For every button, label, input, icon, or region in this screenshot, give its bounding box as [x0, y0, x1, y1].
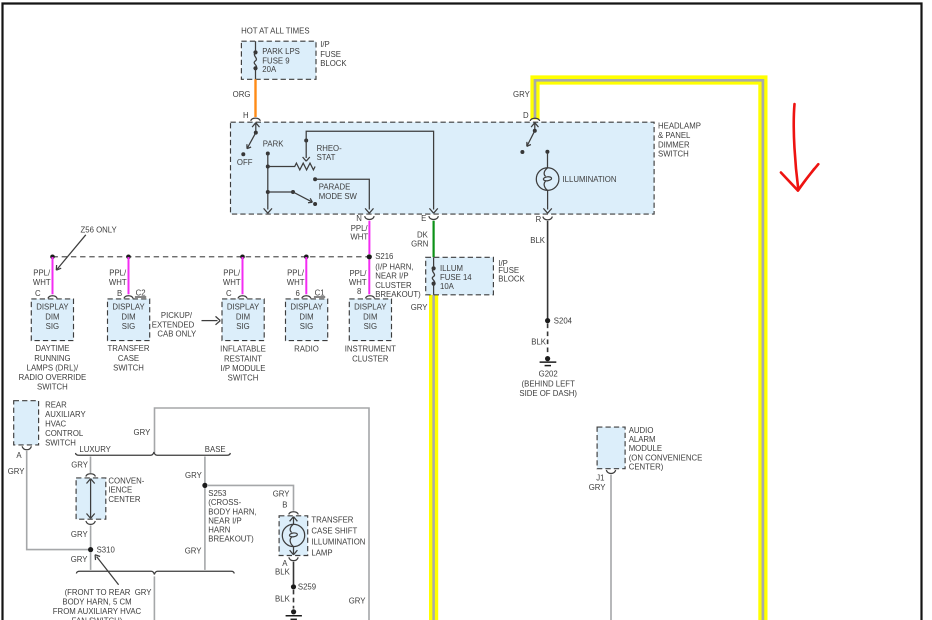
wire GRY main feed (horizontal bus to right edge column) [134, 408, 369, 620]
svg-text:DISPLAY: DISPLAY [36, 303, 69, 312]
svg-text:DAYTIME: DAYTIME [35, 344, 69, 353]
svg-text:TRANSFER: TRANSFER [107, 344, 149, 353]
svg-text:I/P: I/P [320, 40, 330, 49]
svg-text:GRY: GRY [589, 483, 607, 492]
terminal at convenience center bottom [86, 521, 95, 524]
svg-text:AUXILIARY: AUXILIARY [45, 410, 86, 419]
terminal A of rear aux HVAC switch [16, 446, 31, 460]
svg-text:AUDIO: AUDIO [629, 426, 654, 435]
svg-text:BASE: BASE [205, 445, 226, 454]
svg-text:D: D [523, 111, 529, 120]
junction dot drop 3 [240, 254, 245, 259]
svg-text:DIM: DIM [121, 312, 135, 321]
wire GRY from audio alarm module down [589, 475, 611, 620]
svg-text:BLK: BLK [530, 236, 546, 245]
svg-text:HOT AT ALL TIMES: HOT AT ALL TIMES [241, 26, 309, 35]
lamp box: transfer case shift illumination lamp [279, 515, 365, 557]
svg-text:GRY: GRY [71, 530, 89, 539]
headlamp & panel dimmer switch box [231, 122, 701, 215]
svg-text:DISPLAY: DISPLAY [227, 303, 260, 312]
wire PPL/WHT from terminal N to S216 [350, 221, 369, 254]
svg-text:RUNNING: RUNNING [34, 354, 70, 363]
svg-text:S204: S204 [554, 316, 573, 325]
dashed BLK wire from S259 to ground [275, 590, 293, 609]
annotation arrow to S310 [53, 555, 142, 620]
svg-text:I/P MODULE: I/P MODULE [221, 364, 266, 373]
wire PPL/WHT drop 4 [287, 257, 325, 298]
svg-text:INFLATABLE: INFLATABLE [220, 345, 266, 354]
svg-text:C1: C1 [315, 288, 325, 297]
svg-text:S253: S253 [208, 489, 226, 498]
svg-text:CLUSTER: CLUSTER [352, 354, 389, 363]
svg-text:CASE SHIFT: CASE SHIFT [311, 526, 357, 535]
terminal B of transfer case switch [124, 296, 133, 299]
svg-text:WHT: WHT [349, 278, 367, 287]
connector DISPLAY DIM SIG box 5: instrument cluster [345, 299, 396, 363]
svg-text:S216: S216 [375, 252, 393, 261]
wire BLK from lamp to S259 [275, 562, 293, 585]
svg-text:LUXURY: LUXURY [79, 445, 111, 454]
svg-text:SIG: SIG [236, 322, 249, 331]
svg-text:LAMP: LAMP [311, 548, 332, 557]
wire DK GRN from terminal E to ILLUM fuse [411, 221, 434, 258]
label PICKUP/EXTENDED CAB ONLY with arrow [152, 311, 221, 339]
svg-text:DIM: DIM [363, 312, 377, 321]
dashed BLK wire from S204 to G202 [531, 324, 547, 355]
svg-text:BLK: BLK [275, 568, 291, 577]
svg-text:BODY HARN, 5 CM: BODY HARN, 5 CM [62, 597, 131, 606]
svg-text:CLUSTER: CLUSTER [375, 281, 412, 290]
svg-text:TRANSFER: TRANSFER [311, 515, 353, 524]
double arrow inside convenience center [87, 479, 95, 519]
svg-text:R: R [536, 215, 542, 224]
svg-text:NEAR I/P: NEAR I/P [375, 272, 408, 281]
svg-text:NEAR I/P: NEAR I/P [208, 516, 241, 525]
rheostat resistor [268, 144, 342, 170]
svg-text:6: 6 [296, 289, 300, 298]
svg-text:(BEHIND LEFT: (BEHIND LEFT [522, 379, 576, 388]
wire PPL/WHT drop 3 [223, 257, 243, 298]
connector DISPLAY DIM SIG box 4: radio [286, 299, 328, 354]
svg-text:DISPLAY: DISPLAY [290, 303, 323, 312]
dashed PPL/WHT bus wire (Z56) [53, 256, 370, 258]
svg-text:DIMMER: DIMMER [658, 140, 690, 149]
svg-text:(I/P HARN,: (I/P HARN, [375, 262, 413, 271]
svg-text:BLK: BLK [531, 338, 547, 347]
svg-text:SWITCH: SWITCH [37, 383, 68, 392]
svg-text:RESTAINT: RESTAINT [224, 354, 262, 363]
highlighted GRY wire below ILLUM fuse (yellow marker) [429, 295, 438, 620]
svg-text:A: A [16, 451, 22, 460]
terminal H [243, 111, 260, 121]
svg-text:WHT: WHT [287, 278, 305, 287]
terminal A of transfer case lamp [282, 557, 298, 568]
splice S259 [291, 582, 316, 591]
svg-text:CONTROL: CONTROL [45, 429, 84, 438]
PARK contact and vertical bus inside switch [264, 152, 272, 214]
svg-text:SIG: SIG [46, 322, 59, 331]
junction dot drop 4 [304, 254, 309, 259]
svg-text:GRY: GRY [185, 471, 203, 480]
svg-text:GRY: GRY [185, 546, 203, 555]
svg-text:B: B [282, 501, 287, 510]
svg-text:CASE: CASE [118, 354, 139, 363]
highlighted GRY wire from terminal D (yellow marker) [535, 80, 763, 620]
splice S204 [545, 316, 573, 325]
svg-text:BLOCK: BLOCK [498, 275, 525, 284]
svg-text:ILLUMINATION: ILLUMINATION [311, 537, 365, 546]
svg-text:SWITCH: SWITCH [113, 363, 144, 372]
wire PPL/WHT drop 2 [109, 257, 146, 298]
svg-text:H: H [243, 111, 249, 120]
svg-text:GRN: GRN [411, 239, 428, 248]
svg-text:HARN: HARN [208, 526, 230, 535]
svg-text:MODULE: MODULE [629, 444, 662, 453]
junction dot drop 2 [126, 254, 131, 259]
svg-text:SWITCH: SWITCH [658, 150, 689, 159]
svg-text:N: N [356, 214, 362, 223]
svg-text:BLK: BLK [275, 595, 291, 604]
ground G202 [519, 356, 577, 398]
svg-text:PICKUP/: PICKUP/ [161, 311, 193, 320]
splice S253 [202, 483, 256, 544]
terminal B of transfer case lamp [282, 501, 298, 515]
svg-text:PPL/: PPL/ [223, 268, 241, 277]
svg-text:LAMPS (DRL)/: LAMPS (DRL)/ [27, 363, 79, 372]
svg-text:GRY: GRY [134, 428, 152, 437]
svg-text:GRY: GRY [349, 597, 367, 606]
svg-text:DIM: DIM [236, 312, 250, 321]
svg-text:FAN SWITCH): FAN SWITCH) [72, 617, 123, 620]
svg-text:CAB ONLY: CAB ONLY [157, 330, 197, 339]
svg-text:GRY: GRY [513, 90, 531, 99]
svg-text:BODY HARN,: BODY HARN, [208, 507, 256, 516]
svg-text:ALARM: ALARM [629, 435, 656, 444]
svg-text:PPL/: PPL/ [349, 269, 367, 278]
wire GRY from S253 to transfer case lamp [207, 485, 294, 510]
label I/P FUSE BLOCK (middle) [498, 259, 525, 284]
svg-text:DIM: DIM [45, 312, 59, 321]
wire PPL/WHT drop 1 [33, 257, 53, 298]
wire GRY base branch to S253 [185, 457, 205, 486]
svg-text:GRY: GRY [71, 460, 89, 469]
svg-text:ILLUM: ILLUM [440, 264, 463, 273]
terminal C of DRL switch [48, 296, 57, 299]
terminal at convenience center top [86, 474, 96, 477]
svg-text:GRY: GRY [8, 467, 26, 476]
svg-text:SIDE OF DASH): SIDE OF DASH) [519, 389, 577, 398]
svg-text:PARK LPS: PARK LPS [262, 47, 300, 56]
switch arm OFF/PARK at terminal H [237, 123, 284, 167]
svg-text:PPL/: PPL/ [33, 268, 51, 277]
svg-text:B: B [117, 289, 122, 298]
svg-text:EXTENDED: EXTENDED [152, 320, 195, 329]
svg-text:CENTER: CENTER [108, 495, 140, 504]
svg-text:E: E [421, 214, 426, 223]
svg-text:PPL/: PPL/ [287, 268, 305, 277]
svg-text:CENTER): CENTER) [629, 463, 664, 472]
rheostat wiper arrow to terminal E [303, 131, 438, 213]
svg-text:SWITCH: SWITCH [228, 374, 259, 383]
junction dot drop 1 [50, 254, 55, 259]
svg-text:ORG: ORG [233, 90, 251, 99]
svg-text:RHEO-: RHEO- [317, 144, 343, 153]
svg-text:Z56 ONLY: Z56 ONLY [81, 225, 118, 234]
svg-text:RADIO: RADIO [294, 345, 319, 354]
svg-text:GRY: GRY [273, 489, 291, 498]
svg-text:IENCE: IENCE [108, 486, 132, 495]
wire BLK from terminal R to S204 [530, 221, 547, 321]
terminal C of inflatable restraint module [238, 296, 247, 299]
brace LUXURY/BASE split [76, 445, 231, 455]
connector DISPLAY DIM SIG box 3: inflatable restaint module [220, 299, 266, 383]
svg-text:(ON CONVENIENCE: (ON CONVENIENCE [629, 453, 703, 462]
svg-text:PARADE: PARADE [319, 183, 350, 192]
svg-text:STAT: STAT [317, 153, 336, 162]
svg-text:DISPLAY: DISPLAY [112, 303, 145, 312]
wire GRY from rear aux HVAC to S310 [8, 451, 89, 550]
svg-text:OFF: OFF [237, 158, 253, 167]
terminal N [356, 214, 374, 223]
svg-text:FUSE: FUSE [320, 50, 341, 59]
svg-text:ILLUMINATION: ILLUMINATION [563, 175, 617, 184]
svg-text:GRY: GRY [71, 555, 89, 564]
svg-text:(FRONT TO REAR: (FRONT TO REAR [65, 588, 131, 597]
svg-text:SIG: SIG [300, 322, 313, 331]
terminal R [536, 215, 553, 224]
terminal 8 of instrument cluster [365, 296, 374, 299]
wire GRY from convenience center to S310 [71, 525, 91, 549]
transfer case lamp element [282, 517, 304, 555]
svg-text:MODE SW: MODE SW [319, 192, 358, 201]
fuse block box: PARK LPS FUSE 9 20A [241, 41, 316, 79]
svg-text:SIG: SIG [364, 322, 377, 331]
svg-text:10A: 10A [440, 282, 455, 291]
svg-text:BREAKOUT): BREAKOUT) [375, 290, 421, 299]
svg-text:RADIO OVERRIDE: RADIO OVERRIDE [19, 373, 87, 382]
svg-text:& PANEL: & PANEL [658, 131, 691, 140]
splice S216 [367, 252, 421, 299]
illumination lamp L1 [536, 150, 616, 213]
svg-text:(CROSS-: (CROSS- [208, 498, 241, 507]
connector box: rear auxiliary HVAC control switch [14, 400, 87, 447]
red annotation arrow [781, 104, 818, 191]
connector box: audio alarm module [597, 426, 702, 472]
svg-text:REAR: REAR [45, 400, 67, 409]
svg-text:S310: S310 [97, 545, 116, 554]
ground at S259 [286, 609, 302, 619]
svg-text:GRY: GRY [135, 588, 153, 597]
svg-text:S259: S259 [298, 582, 316, 591]
fuse F14 symbol [432, 257, 436, 295]
parade mode switch [268, 177, 374, 213]
svg-text:8: 8 [357, 287, 361, 296]
svg-text:PARK: PARK [263, 139, 284, 148]
svg-text:J1: J1 [596, 473, 604, 482]
svg-text:WHT: WHT [109, 278, 127, 287]
svg-text:FUSE 14: FUSE 14 [440, 273, 472, 282]
terminal D [523, 111, 540, 121]
svg-text:FROM AUXILIARY HVAC: FROM AUXILIARY HVAC [53, 607, 142, 616]
svg-text:SWITCH: SWITCH [45, 438, 76, 447]
terminal J1 of audio alarm module [596, 470, 615, 482]
svg-text:DIM: DIM [299, 312, 313, 321]
wire GRY from S310 down to bottom brace [90, 552, 92, 570]
svg-text:HVAC: HVAC [45, 419, 66, 428]
connector box: convenience center [76, 476, 145, 519]
wire GRY below bottom brace [135, 576, 155, 620]
switch arm at terminal D [520, 123, 538, 154]
svg-text:DK: DK [417, 231, 429, 240]
svg-text:SIG: SIG [122, 322, 135, 331]
wire ORG from fuse 9 to terminal H [233, 79, 256, 117]
label Z56 ONLY with arrow [56, 225, 117, 270]
svg-text:WHT: WHT [350, 232, 368, 241]
svg-text:G202: G202 [539, 370, 558, 379]
splice S310 [71, 545, 116, 564]
svg-text:C: C [35, 289, 41, 298]
fuse F9 symbol [253, 41, 257, 79]
svg-text:CONVEN-: CONVEN- [108, 476, 144, 485]
svg-text:FUSE: FUSE [498, 266, 519, 275]
svg-text:GRY: GRY [411, 303, 429, 312]
svg-text:C: C [226, 289, 232, 298]
svg-text:WHT: WHT [33, 278, 51, 287]
svg-text:WHT: WHT [223, 278, 241, 287]
svg-text:BREAKOUT): BREAKOUT) [208, 535, 254, 544]
svg-text:C2: C2 [136, 288, 146, 297]
wire GRY luxury branch to convenience center [71, 457, 90, 474]
svg-text:BLOCK: BLOCK [320, 59, 347, 68]
label I/P FUSE BLOCK (top) [320, 40, 347, 68]
terminal 6 of radio [302, 296, 311, 299]
connector DISPLAY DIM SIG box 2: transfer case switch [107, 299, 149, 373]
svg-text:DISPLAY: DISPLAY [354, 303, 387, 312]
fuse block box: ILLUM FUSE 14 10A [426, 257, 494, 295]
terminal E [421, 214, 438, 223]
connector DISPLAY DIM SIG box 1: daytime running lamps [19, 299, 87, 392]
svg-text:INSTRUMENT: INSTRUMENT [345, 345, 396, 354]
svg-text:PPL/: PPL/ [109, 268, 127, 277]
brace merge at bottom [76, 571, 234, 574]
wire GRY from S253 down to bottom brace [185, 488, 205, 570]
svg-text:HEADLAMP: HEADLAMP [658, 122, 701, 131]
svg-text:20A: 20A [262, 65, 277, 74]
wire PPL/WHT drop 5 below S216 [349, 260, 369, 297]
